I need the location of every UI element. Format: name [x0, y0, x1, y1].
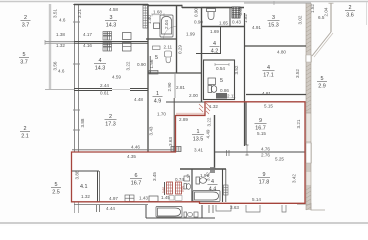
kitchen counter rects — [169, 196, 174, 201]
svg-text:4.58: 4.58 — [109, 7, 118, 12]
hatch block right of bath wall — [224, 185, 229, 195]
svg-text:2.90: 2.90 — [167, 82, 172, 91]
svg-text:4.4: 4.4 — [209, 187, 217, 193]
svg-text:2.44: 2.44 — [100, 83, 109, 88]
top wall center — [148, 5, 182, 7]
svg-text:3.45: 3.45 — [152, 172, 157, 181]
svg-text:4.16: 4.16 — [83, 43, 92, 48]
svg-text:2.04: 2.04 — [164, 20, 169, 29]
svg-text:5: 5 — [55, 182, 58, 188]
room 4.2 right wall — [220, 27, 222, 54]
svg-text:2.11: 2.11 — [164, 45, 173, 50]
svg-text:3.88: 3.88 — [75, 170, 80, 179]
lower door frames — [216, 205, 286, 212]
dim line above 0.54 — [215, 63, 229, 66]
svg-text:4.59: 4.59 — [112, 75, 121, 80]
toilet room right wall — [229, 8, 231, 28]
svg-text:3.02: 3.02 — [298, 15, 303, 24]
svg-text:1.43: 1.43 — [139, 196, 148, 201]
svg-text:4.97: 4.97 — [109, 196, 118, 201]
vent shafts 2x2 grid upper — [103, 32, 112, 41]
svg-text:3.6: 3.6 — [346, 13, 354, 19]
svg-text:5: 5 — [155, 55, 158, 61]
right wall bottom corner line — [311, 203, 325, 210]
label room 4/14.3 — [94, 58, 106, 72]
label balcony 5/2.5 — [51, 182, 61, 196]
svg-text:4.2: 4.2 — [211, 49, 219, 55]
hatch block on corridor wall — [149, 71, 158, 75]
svg-text:3.42: 3.42 — [292, 174, 297, 183]
svg-text:4.49: 4.49 — [206, 129, 211, 138]
svg-text:0.29: 0.29 — [178, 45, 183, 54]
toilet room5 — [208, 86, 217, 93]
svg-text:4.46: 4.46 — [131, 145, 140, 150]
svg-text:5: 5 — [321, 76, 324, 82]
svg-text:5.25: 5.25 — [275, 157, 284, 162]
svg-text:4.81: 4.81 — [262, 91, 271, 96]
svg-text:3.22: 3.22 — [207, 117, 212, 126]
svg-text:1.52: 1.52 — [243, 14, 248, 23]
svg-text:0.43: 0.43 — [232, 20, 241, 25]
label balcony 2/3.6 — [345, 5, 355, 19]
svg-text:0.86: 0.86 — [220, 88, 229, 93]
svg-text:3: 3 — [110, 15, 113, 21]
svg-text:2: 2 — [349, 5, 352, 11]
svg-text:4.6: 4.6 — [58, 69, 65, 74]
svg-text:17.8: 17.8 — [259, 180, 270, 186]
top-right balcony vertical — [330, 3, 332, 32]
bathroom 1 walls — [176, 5, 178, 74]
corridor bottom wall — [166, 101, 205, 103]
svg-text:6: 6 — [135, 173, 138, 179]
svg-text:2: 2 — [109, 114, 112, 120]
vent shaft top (hatched) — [232, 7, 240, 18]
red vent boxes kitchen corner — [167, 182, 182, 194]
svg-text:5.15: 5.15 — [264, 104, 273, 109]
svg-text:1.52: 1.52 — [310, 4, 315, 13]
svg-text:17.3: 17.3 — [105, 122, 116, 128]
wall bottom of room 4 (double) with door gap — [74, 88, 112, 90]
svg-text:1.65: 1.65 — [219, 21, 228, 26]
room 15.3 bottom wall — [244, 45, 306, 47]
sink room5 — [208, 78, 216, 85]
svg-text:2.89: 2.89 — [179, 117, 188, 122]
svg-text:3.21: 3.21 — [77, 9, 82, 18]
svg-text:1.38: 1.38 — [56, 32, 65, 37]
svg-text:0.90: 0.90 — [194, 8, 199, 17]
room 4.2 bottom wall — [196, 53, 221, 55]
wall x246 between corridor and 16.7 — [245, 102, 247, 145]
svg-text:14.3: 14.3 — [95, 66, 106, 72]
bottom separator line — [0, 222, 368, 224]
svg-text:5.15: 5.15 — [257, 131, 266, 136]
wall x150 second line — [149, 56, 151, 74]
svg-text:1.32: 1.32 — [209, 104, 218, 109]
svg-text:1.68: 1.68 — [153, 10, 162, 15]
svg-text:0.90: 0.90 — [194, 20, 203, 25]
fridge box lower — [123, 43, 132, 52]
door jamb dashes in room 16.7 — [226, 150, 228, 156]
svg-text:1.32: 1.32 — [81, 194, 90, 199]
kitchen wall right — [164, 182, 166, 195]
balcony left edge (light) — [49, 4, 51, 90]
lower bathtub — [156, 207, 182, 218]
bathtub room4.4 (horizontal) — [193, 191, 220, 202]
label room 4/4.2 — [210, 41, 220, 55]
svg-text:2.9: 2.9 — [318, 84, 326, 90]
red wall fill above room 13.5 — [176, 113, 205, 116]
red apartment outline — [72, 102, 306, 204]
svg-text:3.51: 3.51 — [53, 9, 58, 18]
wc2 toilet — [165, 51, 172, 63]
svg-text:3.52: 3.52 — [295, 69, 300, 78]
top window line right section — [244, 2, 311, 4]
svg-text:2.5: 2.5 — [52, 190, 60, 196]
svg-text:2.00: 2.00 — [189, 93, 198, 98]
svg-text:3.43: 3.43 — [149, 126, 154, 135]
rooms 9 left wall — [214, 115, 216, 169]
svg-text:1.99: 1.99 — [186, 32, 195, 37]
dim line under 1.68 — [152, 13, 164, 16]
top border line — [0, 1, 368, 3]
svg-text:2.11: 2.11 — [227, 94, 236, 99]
svg-text:3.88: 3.88 — [80, 118, 85, 127]
toilet 1 symbol — [207, 9, 216, 20]
right wall of rooms 3/4/2 (long vertical) — [147, 4, 149, 152]
left wall continues below red to separator — [74, 202, 76, 213]
svg-text:1.32: 1.32 — [56, 43, 65, 48]
wall below room 13.5 — [180, 168, 226, 170]
vent shafts 2x2 grid lower — [103, 43, 112, 52]
hall 4.1 wall right — [97, 171, 99, 202]
label room 4/17.1 — [263, 65, 275, 79]
label room 2/17.3 — [105, 114, 117, 128]
toilet room4.4 — [196, 177, 206, 184]
svg-text:2: 2 — [24, 126, 27, 132]
svg-text:3.7: 3.7 — [22, 23, 30, 29]
svg-text:5: 5 — [220, 78, 223, 84]
bathroom 5 box — [204, 60, 235, 100]
svg-text:14.3: 14.3 — [106, 23, 117, 29]
center vertical wall (toilet/bath column left) — [201, 7, 203, 102]
left window wall of rooms 3/4/2 (double line) — [74, 4, 76, 152]
svg-text:1.70: 1.70 — [157, 112, 166, 117]
svg-text:4.44: 4.44 — [106, 206, 115, 211]
label room 9/16.7 — [255, 118, 267, 132]
label room 4/4.4 — [208, 179, 218, 193]
label room 9/17.8 — [258, 172, 270, 186]
svg-text:4: 4 — [213, 41, 216, 47]
vent hatch room5 — [216, 93, 227, 99]
lower apartment room walls — [97, 205, 216, 218]
svg-text:2: 2 — [24, 15, 27, 21]
svg-text:1.45: 1.45 — [161, 195, 170, 200]
faint right edge line — [366, 2, 368, 25]
wall between rooms 3 and 4 (double) — [45, 41, 74, 43]
hall 4.1 top wall — [72, 170, 99, 172]
label balcony 2/2.1 — [20, 126, 30, 140]
svg-text:3.52: 3.52 — [234, 65, 239, 74]
label room 6/16.7 — [130, 173, 142, 187]
svg-text:1.97: 1.97 — [200, 173, 209, 178]
svg-text:3.22: 3.22 — [126, 61, 131, 70]
svg-text:0.61: 0.61 — [100, 91, 109, 96]
toilet room top wall — [201, 7, 230, 9]
svg-text:5.14: 5.14 — [252, 197, 261, 202]
svg-text:1.40: 1.40 — [147, 15, 152, 24]
bath1 door arc — [164, 26, 177, 38]
bathtub 1 (vertical) — [160, 15, 173, 37]
top-right balcony diagonal (double) — [312, 32, 331, 56]
svg-text:4.48: 4.48 — [134, 97, 143, 102]
corridor right wall — [174, 74, 176, 98]
svg-text:4.6: 4.6 — [59, 18, 66, 23]
svg-text:4: 4 — [267, 65, 270, 71]
divider wall 16.7/17.8 — [215, 151, 305, 153]
svg-text:3: 3 — [272, 15, 275, 21]
svg-text:16.7: 16.7 — [131, 181, 142, 187]
svg-text:0.60: 0.60 — [162, 187, 166, 193]
lower wc icons — [184, 212, 198, 217]
shaft right of bathroom5 — [244, 13, 246, 146]
svg-text:2.1: 2.1 — [21, 134, 29, 140]
svg-text:0.74: 0.74 — [175, 177, 184, 182]
door jambs at divider — [246, 144, 249, 146]
svg-text:3.41: 3.41 — [194, 148, 203, 153]
window ticks — [73, 4, 80, 6]
svg-text:4: 4 — [99, 58, 102, 64]
label room 1/13.5 — [192, 129, 204, 143]
svg-text:0.60: 0.60 — [181, 186, 185, 192]
red hatch near step — [206, 103, 210, 114]
svg-text:4: 4 — [211, 179, 214, 185]
svg-text:15.3: 15.3 — [268, 23, 279, 29]
label balcony 5/2.9 — [317, 76, 327, 90]
right wall hatch texture — [306, 5, 311, 210]
svg-text:2.81: 2.81 — [176, 85, 185, 90]
svg-text:4.35: 4.35 — [127, 154, 136, 159]
svg-text:4.1: 4.1 — [80, 184, 88, 190]
sink 1 — [154, 23, 160, 29]
bath room 4.4 right wall (double) — [222, 169, 224, 202]
wc2 sink — [153, 46, 161, 50]
label balcony 2/3.7 — [21, 15, 31, 29]
svg-text:17.1: 17.1 — [263, 73, 274, 79]
svg-text:4.9: 4.9 — [154, 99, 162, 105]
vent block corner — [210, 167, 215, 173]
fridge box upper — [123, 33, 132, 40]
right wall inner/outer edges — [305, 3, 307, 210]
svg-text:9: 9 — [263, 172, 266, 178]
vent hatch next to wall — [143, 6, 148, 29]
gray wall line above bottom red — [74, 204, 148, 206]
label room 3/14.3 — [105, 15, 117, 29]
window sill rects — [306, 55, 312, 62]
vent hatch at corridor corner — [171, 147, 181, 152]
svg-text:3.7: 3.7 — [20, 60, 28, 66]
bath room 4.4 left wall — [191, 169, 193, 202]
svg-text:2.04: 2.04 — [324, 7, 329, 16]
svg-text:3.21: 3.21 — [296, 119, 301, 128]
svg-text:0.90: 0.90 — [137, 62, 146, 67]
svg-text:1.56: 1.56 — [149, 59, 154, 68]
svg-text:13.5: 13.5 — [193, 137, 204, 143]
top wall rooms 3 — [74, 4, 148, 6]
svg-text:0.54: 0.54 — [216, 66, 225, 71]
svg-text:4.91: 4.91 — [252, 25, 261, 30]
right exterior wall band — [306, 3, 311, 55]
svg-text:9: 9 — [259, 118, 262, 124]
svg-text:3.63: 3.63 — [230, 205, 239, 210]
label balcony 5/3.7 — [19, 52, 29, 66]
svg-text:4.17: 4.17 — [83, 32, 92, 37]
wc icons left — [184, 176, 190, 181]
room 17.1 bottom wall — [246, 94, 306, 96]
svg-text:4.80: 4.80 — [277, 50, 286, 55]
svg-text:1.69: 1.69 — [210, 29, 219, 34]
label room 1/4.9 — [153, 91, 163, 105]
wall under toilet room — [201, 26, 244, 28]
svg-text:3.63: 3.63 — [168, 137, 173, 146]
svg-text:4.76: 4.76 — [261, 147, 270, 152]
svg-text:1: 1 — [156, 91, 159, 97]
svg-text:2.76: 2.76 — [261, 153, 270, 158]
kitchen sink — [149, 196, 158, 202]
label room 3/15.3 — [268, 15, 280, 29]
svg-text:1: 1 — [197, 129, 200, 135]
svg-text:5: 5 — [23, 52, 26, 58]
corridor top wall — [148, 72, 201, 74]
svg-text:3.56: 3.56 — [53, 61, 58, 70]
stove grid kitchen — [125, 195, 134, 202]
gray wall line above left red boundary — [72, 149, 175, 151]
